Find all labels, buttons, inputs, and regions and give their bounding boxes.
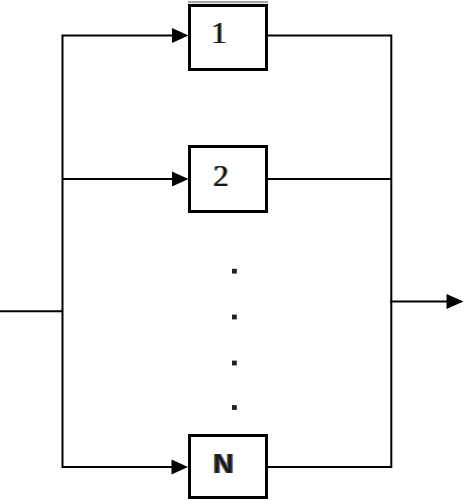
svg-text:N: N xyxy=(213,448,233,479)
svg-text:1: 1 xyxy=(211,15,227,50)
svg-text:2: 2 xyxy=(213,158,229,193)
